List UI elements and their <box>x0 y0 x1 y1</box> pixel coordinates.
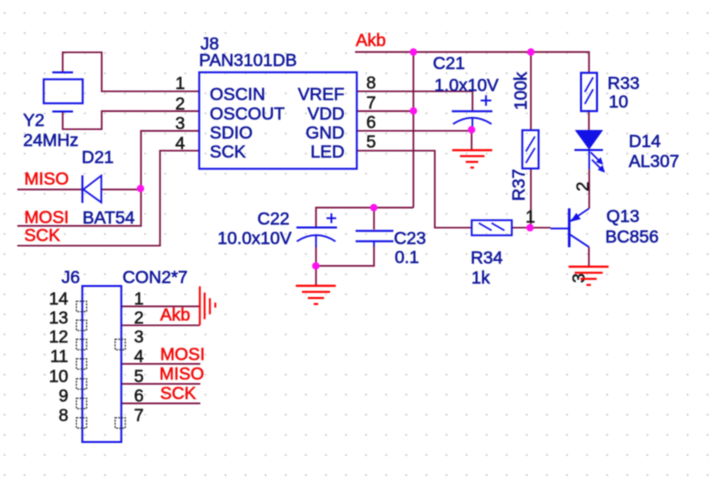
svg-text:13: 13 <box>49 307 68 327</box>
svg-text:D21: D21 <box>82 147 114 167</box>
pin number 13 <box>49 307 68 327</box>
pin number 6 <box>134 386 144 406</box>
svg-text:9: 9 <box>59 386 69 406</box>
wire MISO to diode D21 <box>17 189 82 191</box>
label R37 rotated <box>509 169 529 201</box>
svg-text:MOSI: MOSI <box>160 344 205 364</box>
label Y2 <box>23 110 44 130</box>
svg-text:R33: R33 <box>608 73 640 93</box>
net label MISO <box>24 168 69 188</box>
pin name OSCIN <box>210 84 265 104</box>
pin square 13 <box>76 320 86 330</box>
value PAN3101DB <box>199 50 297 70</box>
svg-text:SCK: SCK <box>24 225 60 245</box>
pin number 14 <box>49 289 69 309</box>
wire J6 pin 4 MOSI <box>121 363 200 365</box>
wire crystal top to pin 1 OSCIN <box>63 52 200 91</box>
svg-text:12: 12 <box>49 327 68 347</box>
label C22 <box>257 208 289 228</box>
wire crystal bottom to pin 2 OSCOUT <box>63 111 200 129</box>
wire pin 8 VREF to C21 <box>357 91 473 110</box>
pin name LED <box>310 141 344 161</box>
junction node Akb/C21 branch <box>410 48 417 55</box>
pin name GND <box>306 122 345 142</box>
label J8 <box>201 34 219 54</box>
net label Akb top <box>356 30 386 50</box>
resistor R34 <box>472 220 512 235</box>
wire MOSI to pin 3 SDIO <box>17 131 199 226</box>
svg-text:1: 1 <box>526 206 536 226</box>
svg-text:D14: D14 <box>629 131 661 151</box>
svg-text:R37: R37 <box>509 169 529 201</box>
svg-text:10: 10 <box>609 92 629 112</box>
svg-text:100k: 100k <box>511 72 531 110</box>
svg-text:8: 8 <box>59 405 69 425</box>
value 10.0x10V <box>218 228 292 248</box>
junction node diode/SDIO <box>137 185 144 192</box>
label R33 <box>608 73 640 93</box>
svg-text:3: 3 <box>175 113 185 133</box>
svg-text:0.1: 0.1 <box>395 247 419 267</box>
svg-text:11: 11 <box>50 346 68 366</box>
svg-text:C22: C22 <box>257 208 289 228</box>
label J6 <box>62 267 80 287</box>
svg-text:SCK: SCK <box>210 141 246 161</box>
wire J6 pin 1 to battery <box>121 305 200 307</box>
crystal Y2 <box>44 72 83 111</box>
pin number 5 <box>366 132 376 152</box>
pin number 8 <box>366 73 376 93</box>
pin number 2 rotated <box>572 182 592 192</box>
junction node C23 top <box>370 204 377 211</box>
wire Akb branch down to node <box>412 52 414 208</box>
wire R33 bottom to LED D14 <box>588 110 590 130</box>
pin number 1 <box>134 289 144 309</box>
svg-text:SDIO: SDIO <box>210 122 253 142</box>
wire Q13 collector to ground <box>588 247 590 267</box>
wire pin 5 LED to R34 <box>357 151 472 228</box>
value CON2*7 <box>123 267 188 287</box>
svg-text:BC856: BC856 <box>605 226 659 246</box>
pin number 12 <box>49 327 68 347</box>
wire J6 pin 6 SCK <box>121 402 200 404</box>
wire C21 bottom to ground <box>471 126 473 150</box>
junction node C21 GND <box>468 126 475 133</box>
pin square 14 <box>76 301 86 311</box>
svg-text:C21: C21 <box>433 53 465 73</box>
svg-text:7: 7 <box>366 92 376 112</box>
svg-text:C23: C23 <box>394 228 426 248</box>
wire node to C22 <box>316 208 413 227</box>
pin number 7 <box>366 92 376 112</box>
net label SCK <box>24 225 60 245</box>
pin number 11 <box>50 346 68 366</box>
svg-text:14: 14 <box>49 289 69 309</box>
svg-text:LED: LED <box>310 141 344 161</box>
svg-text:AL307: AL307 <box>629 151 680 171</box>
pin name SDIO <box>210 122 253 142</box>
junction node Akb/R37 branch <box>527 48 534 55</box>
svg-text:3: 3 <box>134 327 144 347</box>
value 10 <box>609 92 629 112</box>
LED D14 AL307 <box>574 130 605 173</box>
svg-text:VDD: VDD <box>308 103 345 123</box>
pin number 5 <box>134 366 144 386</box>
pin number 6 <box>366 112 376 132</box>
transistor Q13 BC856 <box>551 208 589 247</box>
svg-text:8: 8 <box>366 73 376 93</box>
svg-text:4: 4 <box>134 346 144 366</box>
label C21 <box>433 53 465 73</box>
svg-text:Akb: Akb <box>160 305 190 325</box>
wire pin 6 GND to C21 bottom <box>357 130 472 132</box>
svg-text:Q13: Q13 <box>606 206 639 226</box>
svg-text:J6: J6 <box>62 267 80 287</box>
value 100k rotated <box>511 72 531 110</box>
pin number 8 <box>59 405 69 425</box>
value BC856 <box>605 226 659 246</box>
svg-text:2: 2 <box>134 307 144 327</box>
wire J6 pin 2 Akb <box>121 324 200 326</box>
capacitor C21 <box>452 95 493 127</box>
svg-text:GND: GND <box>306 122 345 142</box>
pin number 3 <box>134 327 144 347</box>
svg-text:1k: 1k <box>471 267 490 287</box>
resistor R37 <box>522 130 538 168</box>
pin square 7 right <box>115 418 125 428</box>
svg-text:OSCOUT: OSCOUT <box>210 103 285 123</box>
value 0.1 <box>395 247 419 267</box>
svg-text:PAN3101DB: PAN3101DB <box>199 50 297 70</box>
battery symbol at J6 pin 1 <box>200 286 216 325</box>
pin number 2 <box>134 307 144 327</box>
svg-text:7: 7 <box>134 405 144 425</box>
pin name VDD <box>308 103 345 123</box>
pin square 10 <box>76 379 86 389</box>
svg-text:MISO: MISO <box>24 168 69 188</box>
wire J6 pin 5 MISO <box>121 383 200 385</box>
svg-text:R34: R34 <box>471 248 503 268</box>
wire R34 to Q13 base <box>512 227 551 229</box>
ground under C22 <box>296 286 336 304</box>
pin number 7 <box>134 405 144 425</box>
ground under C21 <box>452 150 492 167</box>
value 1.0x10V <box>434 75 499 95</box>
label Q13 <box>606 206 639 226</box>
svg-text:1: 1 <box>175 73 185 93</box>
pin number 1 <box>175 73 185 93</box>
capacitor C22 <box>296 213 337 247</box>
svg-text:BAT54: BAT54 <box>83 207 135 227</box>
wire R37 bottom to base node <box>530 169 532 228</box>
svg-text:Akb: Akb <box>356 30 386 50</box>
wire C22 bottom to ground node <box>315 246 317 285</box>
svg-text:5: 5 <box>366 132 376 152</box>
net label Akb at J6 <box>160 305 190 325</box>
op-amp box IC J8 PAN3101DB <box>199 72 357 169</box>
wire Akb to R37 top <box>530 52 532 130</box>
pin number 3 <box>175 113 185 133</box>
pin square 9 <box>76 398 86 408</box>
pin number 4 <box>134 346 144 366</box>
pin name SCK <box>210 141 246 161</box>
resistor R33 <box>581 73 597 111</box>
wire Akb bus <box>355 52 589 73</box>
junction node VDD <box>410 107 417 114</box>
svg-text:Y2: Y2 <box>23 110 44 130</box>
svg-text:VREF: VREF <box>298 84 345 104</box>
svg-text:2: 2 <box>572 182 592 192</box>
junction node C22 ground <box>312 262 319 269</box>
pin number 4 <box>175 133 185 153</box>
wire ground node to C23 bottom <box>316 245 374 266</box>
net label MOSI at J6 <box>160 344 205 364</box>
pin number 10 <box>49 366 69 386</box>
svg-text:5: 5 <box>134 366 144 386</box>
svg-text:1.0x10V: 1.0x10V <box>434 75 499 95</box>
pin square 11 <box>76 359 86 369</box>
svg-text:SCK: SCK <box>160 383 196 403</box>
svg-text:MISO: MISO <box>159 363 204 383</box>
net label SCK at J6 <box>160 383 196 403</box>
ground under Q13 <box>569 267 609 285</box>
value BAT54 <box>83 207 135 227</box>
value 24MHz <box>23 130 78 150</box>
pin number 9 <box>59 386 69 406</box>
svg-text:2: 2 <box>175 93 185 113</box>
svg-text:4: 4 <box>175 133 185 153</box>
pin name OSCOUT <box>210 103 285 123</box>
pin square 3 right <box>115 339 125 349</box>
pin name VREF <box>298 84 345 104</box>
svg-text:1: 1 <box>134 289 144 309</box>
diode D21 BAT54 <box>82 175 101 203</box>
label R34 <box>471 248 503 268</box>
net label MISO at J6 <box>159 363 204 383</box>
pin number 2 <box>175 93 185 113</box>
svg-text:10: 10 <box>49 366 69 386</box>
svg-text:6: 6 <box>134 386 144 406</box>
capacitor C23 <box>356 231 394 246</box>
svg-text:MOSI: MOSI <box>24 207 69 227</box>
svg-text:OSCIN: OSCIN <box>210 84 265 104</box>
pin square 12 <box>76 339 86 349</box>
value AL307 <box>629 151 680 171</box>
wire diode D21 to SDIO node <box>101 189 141 191</box>
label D14 <box>629 131 661 151</box>
pin number 3 rotated <box>569 273 589 283</box>
net label MOSI <box>24 207 69 227</box>
svg-text:CON2*7: CON2*7 <box>123 267 188 287</box>
value 1k <box>471 267 490 287</box>
pin square 8 <box>76 418 86 428</box>
label D21 <box>82 147 114 167</box>
wire LED D14 to Q13 emitter <box>588 169 590 208</box>
wire pin 7 VDD to Akb branch <box>357 110 414 112</box>
junction node R37/R34/base <box>526 224 533 231</box>
wire C23 top stem <box>373 208 375 230</box>
wire SCK to pin 4 SCK <box>17 151 199 246</box>
svg-text:24MHz: 24MHz <box>23 130 78 150</box>
connector J6 CON2*7 <box>82 286 121 442</box>
pin number 1 at base <box>526 206 536 226</box>
svg-text:6: 6 <box>366 112 376 132</box>
svg-text:10.0x10V: 10.0x10V <box>218 228 292 248</box>
label C23 <box>394 228 426 248</box>
